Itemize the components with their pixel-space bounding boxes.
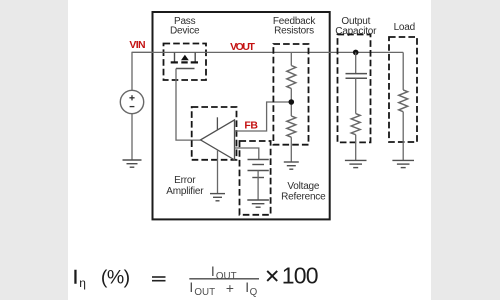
svg-text:100: 100 (282, 262, 318, 288)
wire R2 to ground (290, 137, 292, 162)
resistor R2 lower feedback (287, 116, 296, 137)
resistor R1 upper feedback (287, 66, 296, 89)
svg-text:I: I (245, 279, 249, 295)
ground feedback divider (284, 162, 299, 169)
wire gate to error amplifier output (176, 69, 201, 141)
label Voltage Reference (281, 181, 326, 203)
svg-text:VOUT: VOUT (230, 41, 255, 53)
svg-text:Reference: Reference (281, 192, 326, 203)
label Error Amplifier (166, 175, 204, 197)
svg-text:Q: Q (250, 287, 258, 298)
wire source to ground (131, 114, 133, 160)
wire COUT to ESR (355, 78, 357, 113)
wire VOUT to R1 (290, 52, 292, 65)
label Output Capacitor (335, 16, 377, 37)
wire VIN down to source (132, 52, 153, 90)
svg-text:FB: FB (244, 120, 258, 132)
ground error amplifier (210, 194, 225, 201)
wire FB feedback tap to op-amp input (235, 102, 292, 131)
svg-text:Device: Device (170, 25, 200, 36)
svg-text:Voltage: Voltage (287, 181, 320, 192)
pass device boundary (164, 44, 207, 81)
label Pass Device (170, 16, 200, 37)
svg-text:I: I (211, 263, 215, 279)
node FB junction dot (289, 99, 295, 105)
svg-text:Load: Load (394, 22, 415, 33)
wire op-amp ground pin (217, 150, 219, 194)
wire ESR to ground (355, 135, 357, 161)
ground load (392, 160, 414, 167)
output capacitor boundary (338, 35, 371, 143)
wire R1 to R2 (290, 89, 292, 117)
wire VIN/VOUT main rail (132, 51, 403, 53)
svg-text:VIN: VIN (129, 39, 145, 51)
svg-text:Error: Error (174, 175, 196, 186)
regulator IC boundary (153, 12, 330, 219)
svg-text:Amplifier: Amplifier (166, 186, 204, 197)
svg-text:OUT: OUT (194, 287, 215, 298)
ground output capacitor (345, 160, 367, 167)
ground input source (123, 160, 142, 167)
ground reference (247, 200, 269, 207)
wire VOUT to COUT (355, 52, 357, 73)
wire op-amp reference input (235, 148, 259, 160)
wire reference to ground (257, 171, 259, 201)
svg-text:+: + (226, 281, 234, 296)
svg-text:I: I (73, 267, 78, 289)
svg-text:I: I (189, 279, 193, 295)
feedback resistors boundary (273, 44, 308, 145)
label Feedback Resistors (273, 16, 317, 37)
op-amp U1 error amplifier (201, 117, 235, 160)
battery VREF voltage reference (248, 160, 269, 178)
resistor RLOAD (399, 90, 408, 112)
capacitor COUT (346, 74, 368, 79)
voltage source V1 (120, 90, 143, 113)
efficiency formula (73, 262, 318, 298)
resistor ESR (351, 114, 360, 135)
svg-text:η: η (79, 276, 86, 290)
voltage reference boundary (240, 141, 271, 215)
error amplifier boundary (192, 107, 237, 160)
node VOUT junction dot (353, 50, 359, 56)
wire load to ground (402, 112, 404, 161)
load boundary (389, 37, 417, 142)
svg-text:(%): (%) (101, 267, 130, 289)
svg-text:Resistors: Resistors (274, 26, 314, 37)
wire VOUT to load (402, 52, 404, 90)
transistor Q1 PMOS pass element (171, 52, 198, 68)
